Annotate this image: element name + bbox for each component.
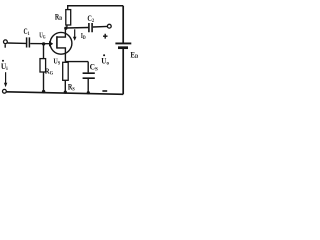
Ui arrow tick below top terminal bbox=[4, 44, 6, 47]
plus sign bbox=[103, 34, 108, 39]
node R_G-ground junction bbox=[42, 90, 45, 93]
wire drain to R_D bbox=[66, 25, 68, 28]
output terminal bbox=[107, 24, 111, 28]
transistor drain stub bbox=[57, 28, 66, 37]
wire R_G lead top bbox=[43, 44, 45, 59]
node C_S-ground junction bbox=[87, 91, 90, 94]
node R_S-ground junction bbox=[64, 91, 67, 94]
wire source node horizontal bbox=[65, 61, 88, 63]
capacitor C1 bbox=[27, 37, 30, 47]
wire R_S lead bottom bbox=[64, 80, 66, 92]
wire input to C1 bbox=[7, 42, 26, 44]
transistor V (JFET) circle bbox=[50, 32, 72, 54]
capacitor C2 bbox=[89, 23, 92, 32]
current arrow I_D bbox=[74, 29, 76, 37]
wire C2 to output terminal bbox=[93, 25, 108, 28]
wire R_D top to rail corner bbox=[67, 6, 69, 10]
wire bottom rail bbox=[6, 92, 123, 95]
capacitor C_S bbox=[83, 73, 95, 78]
input terminal top-left bbox=[4, 40, 8, 44]
battery E_D short plate bbox=[118, 46, 128, 49]
wire top rail bbox=[67, 5, 123, 7]
input terminal bottom-left bbox=[3, 89, 7, 93]
resistor R_G bbox=[40, 59, 46, 72]
node gate junction bbox=[42, 42, 45, 45]
Ui arrow shaft and head bbox=[5, 72, 7, 83]
wire battery negative down bbox=[122, 49, 124, 94]
dot above U_i bbox=[2, 60, 4, 62]
wire C_S lead top bbox=[87, 62, 89, 73]
dot above U_o bbox=[103, 54, 105, 56]
node drain junction bbox=[64, 27, 67, 30]
resistor R_D bbox=[66, 10, 71, 25]
transistor gate arrow bbox=[49, 41, 53, 47]
wire drain to C2 bbox=[66, 27, 89, 30]
minus sign bbox=[102, 90, 107, 92]
wire C1 to gate bbox=[30, 43, 50, 45]
wire R_G lead bottom bbox=[43, 72, 45, 92]
resistor R_S bbox=[63, 62, 68, 80]
wire right side down to battery bbox=[122, 6, 124, 43]
battery E_D long plate bbox=[115, 42, 131, 44]
transistor source stub bbox=[57, 48, 66, 62]
transistor gate bar bbox=[56, 36, 58, 48]
wire C_S lead bottom bbox=[87, 79, 89, 93]
